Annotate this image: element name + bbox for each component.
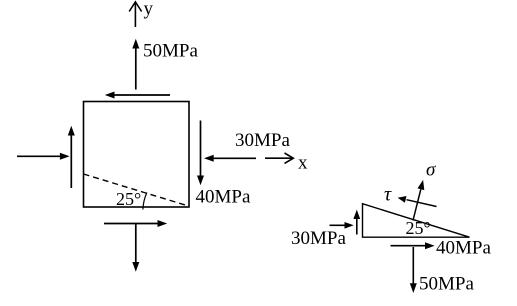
svg-text:25°: 25°: [116, 189, 141, 209]
svg-text:50MPa: 50MPa: [419, 274, 474, 295]
y axis arrow: [129, 2, 141, 27]
svg-text:τ: τ: [384, 184, 392, 206]
svg-text:40MPa: 40MPa: [196, 187, 251, 208]
arrow right normal 30MPa (left): [204, 155, 256, 162]
wedge 40MPa arrow (right): [391, 242, 435, 249]
svg-text:30MPa: 30MPa: [235, 130, 290, 151]
wedge 50MPa arrow (down): [410, 247, 417, 293]
tau arrow (along incline): [398, 196, 437, 207]
arrow left normal (right): [17, 153, 70, 160]
arrow right shear 40MPa (down): [197, 121, 204, 186]
arrow 50MPa top (up): [132, 39, 139, 90]
arrow left shear (up): [68, 126, 75, 188]
svg-text:x: x: [298, 152, 308, 173]
arrow bottom shear (right): [104, 220, 167, 227]
wedge triangle: [363, 204, 470, 238]
wedge left shear arrow (up): [353, 210, 360, 235]
svg-text:50MPa: 50MPa: [143, 40, 198, 61]
x axis arrow: [265, 153, 293, 163]
sigma arrow (normal to incline): [413, 180, 424, 221]
arrow bottom normal (down): [132, 224, 139, 272]
svg-text:y: y: [144, 0, 154, 20]
svg-text:25°: 25°: [406, 218, 431, 238]
svg-text:40MPa: 40MPa: [436, 237, 491, 258]
arrow top shear (left): [105, 92, 170, 99]
stress element square: [84, 102, 190, 208]
angle arc 25deg: [143, 193, 147, 210]
svg-text:σ: σ: [426, 160, 436, 181]
dashed inclined plane line: [84, 174, 189, 206]
svg-text:30MPa: 30MPa: [291, 228, 346, 249]
wedge 30MPa arrow (right): [330, 222, 354, 229]
